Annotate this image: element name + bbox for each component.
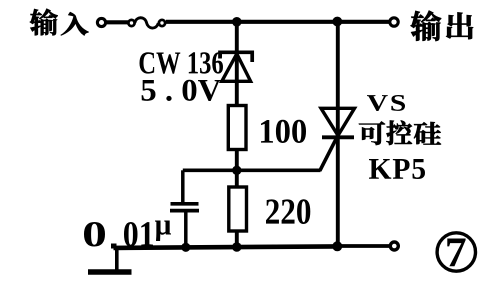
resistor R2 body <box>229 187 247 231</box>
wire gate diagonal to thyristor <box>320 135 338 171</box>
wire R1 to junction <box>235 150 239 172</box>
wire bottom rail <box>114 246 338 248</box>
capacitor C1 top plate <box>171 202 199 206</box>
label: 100 <box>261 120 306 143</box>
resistor R1 body <box>228 106 246 150</box>
label: KP5 <box>369 159 425 179</box>
wire input terminal to fuse <box>106 20 128 24</box>
wire capacitor C1 to bottom rail <box>184 211 188 248</box>
label: CW 136 <box>140 52 223 74</box>
junction: top of thyristor branch <box>332 17 342 27</box>
label: 0.01u value of C1 <box>84 222 105 247</box>
output terminal (top) <box>390 18 398 26</box>
ground bar <box>88 269 132 275</box>
node: input label 输入 <box>30 9 89 36</box>
wire R2 to bottom rail <box>235 231 239 248</box>
wire gate rail horizontal <box>183 169 321 173</box>
fuse F1 wavy element <box>135 18 159 28</box>
wire gate rail down to capacitor C1 <box>181 170 185 204</box>
junction: capacitor bottom <box>181 243 190 252</box>
capacitor C1 bottom plate <box>170 209 199 213</box>
junction: thyristor bottom <box>332 241 342 251</box>
figure number circled 7 <box>437 233 475 271</box>
thyristor VS triangle <box>321 108 355 135</box>
junction: R1/R2/gate node <box>232 166 241 175</box>
label: 可控硅 <box>359 120 441 145</box>
zener diode VD cathode bar <box>220 52 252 62</box>
wire to output terminal (bottom) <box>337 244 390 248</box>
zener diode VD triangle <box>222 54 251 82</box>
junction: top of zener branch <box>232 17 242 27</box>
wire top rail through zener to R1 <box>235 22 239 106</box>
label: 5.0V <box>142 80 221 101</box>
node: output label 输出 <box>411 11 473 41</box>
wire top rail fuse to output <box>166 20 390 24</box>
wire junction to resistor R2 <box>235 170 239 188</box>
fuse F1 left terminal <box>128 20 134 26</box>
label: VS <box>367 95 405 111</box>
ground stub <box>115 248 119 270</box>
label: 220 <box>266 199 310 224</box>
wire top rail through thyristor to bottom rail <box>336 22 340 247</box>
input terminal <box>97 18 105 26</box>
output terminal (bottom) <box>390 242 398 250</box>
fuse F1 right terminal <box>159 20 165 26</box>
thyristor VS cathode bar <box>322 135 354 139</box>
junction: R2 bottom <box>232 242 242 252</box>
